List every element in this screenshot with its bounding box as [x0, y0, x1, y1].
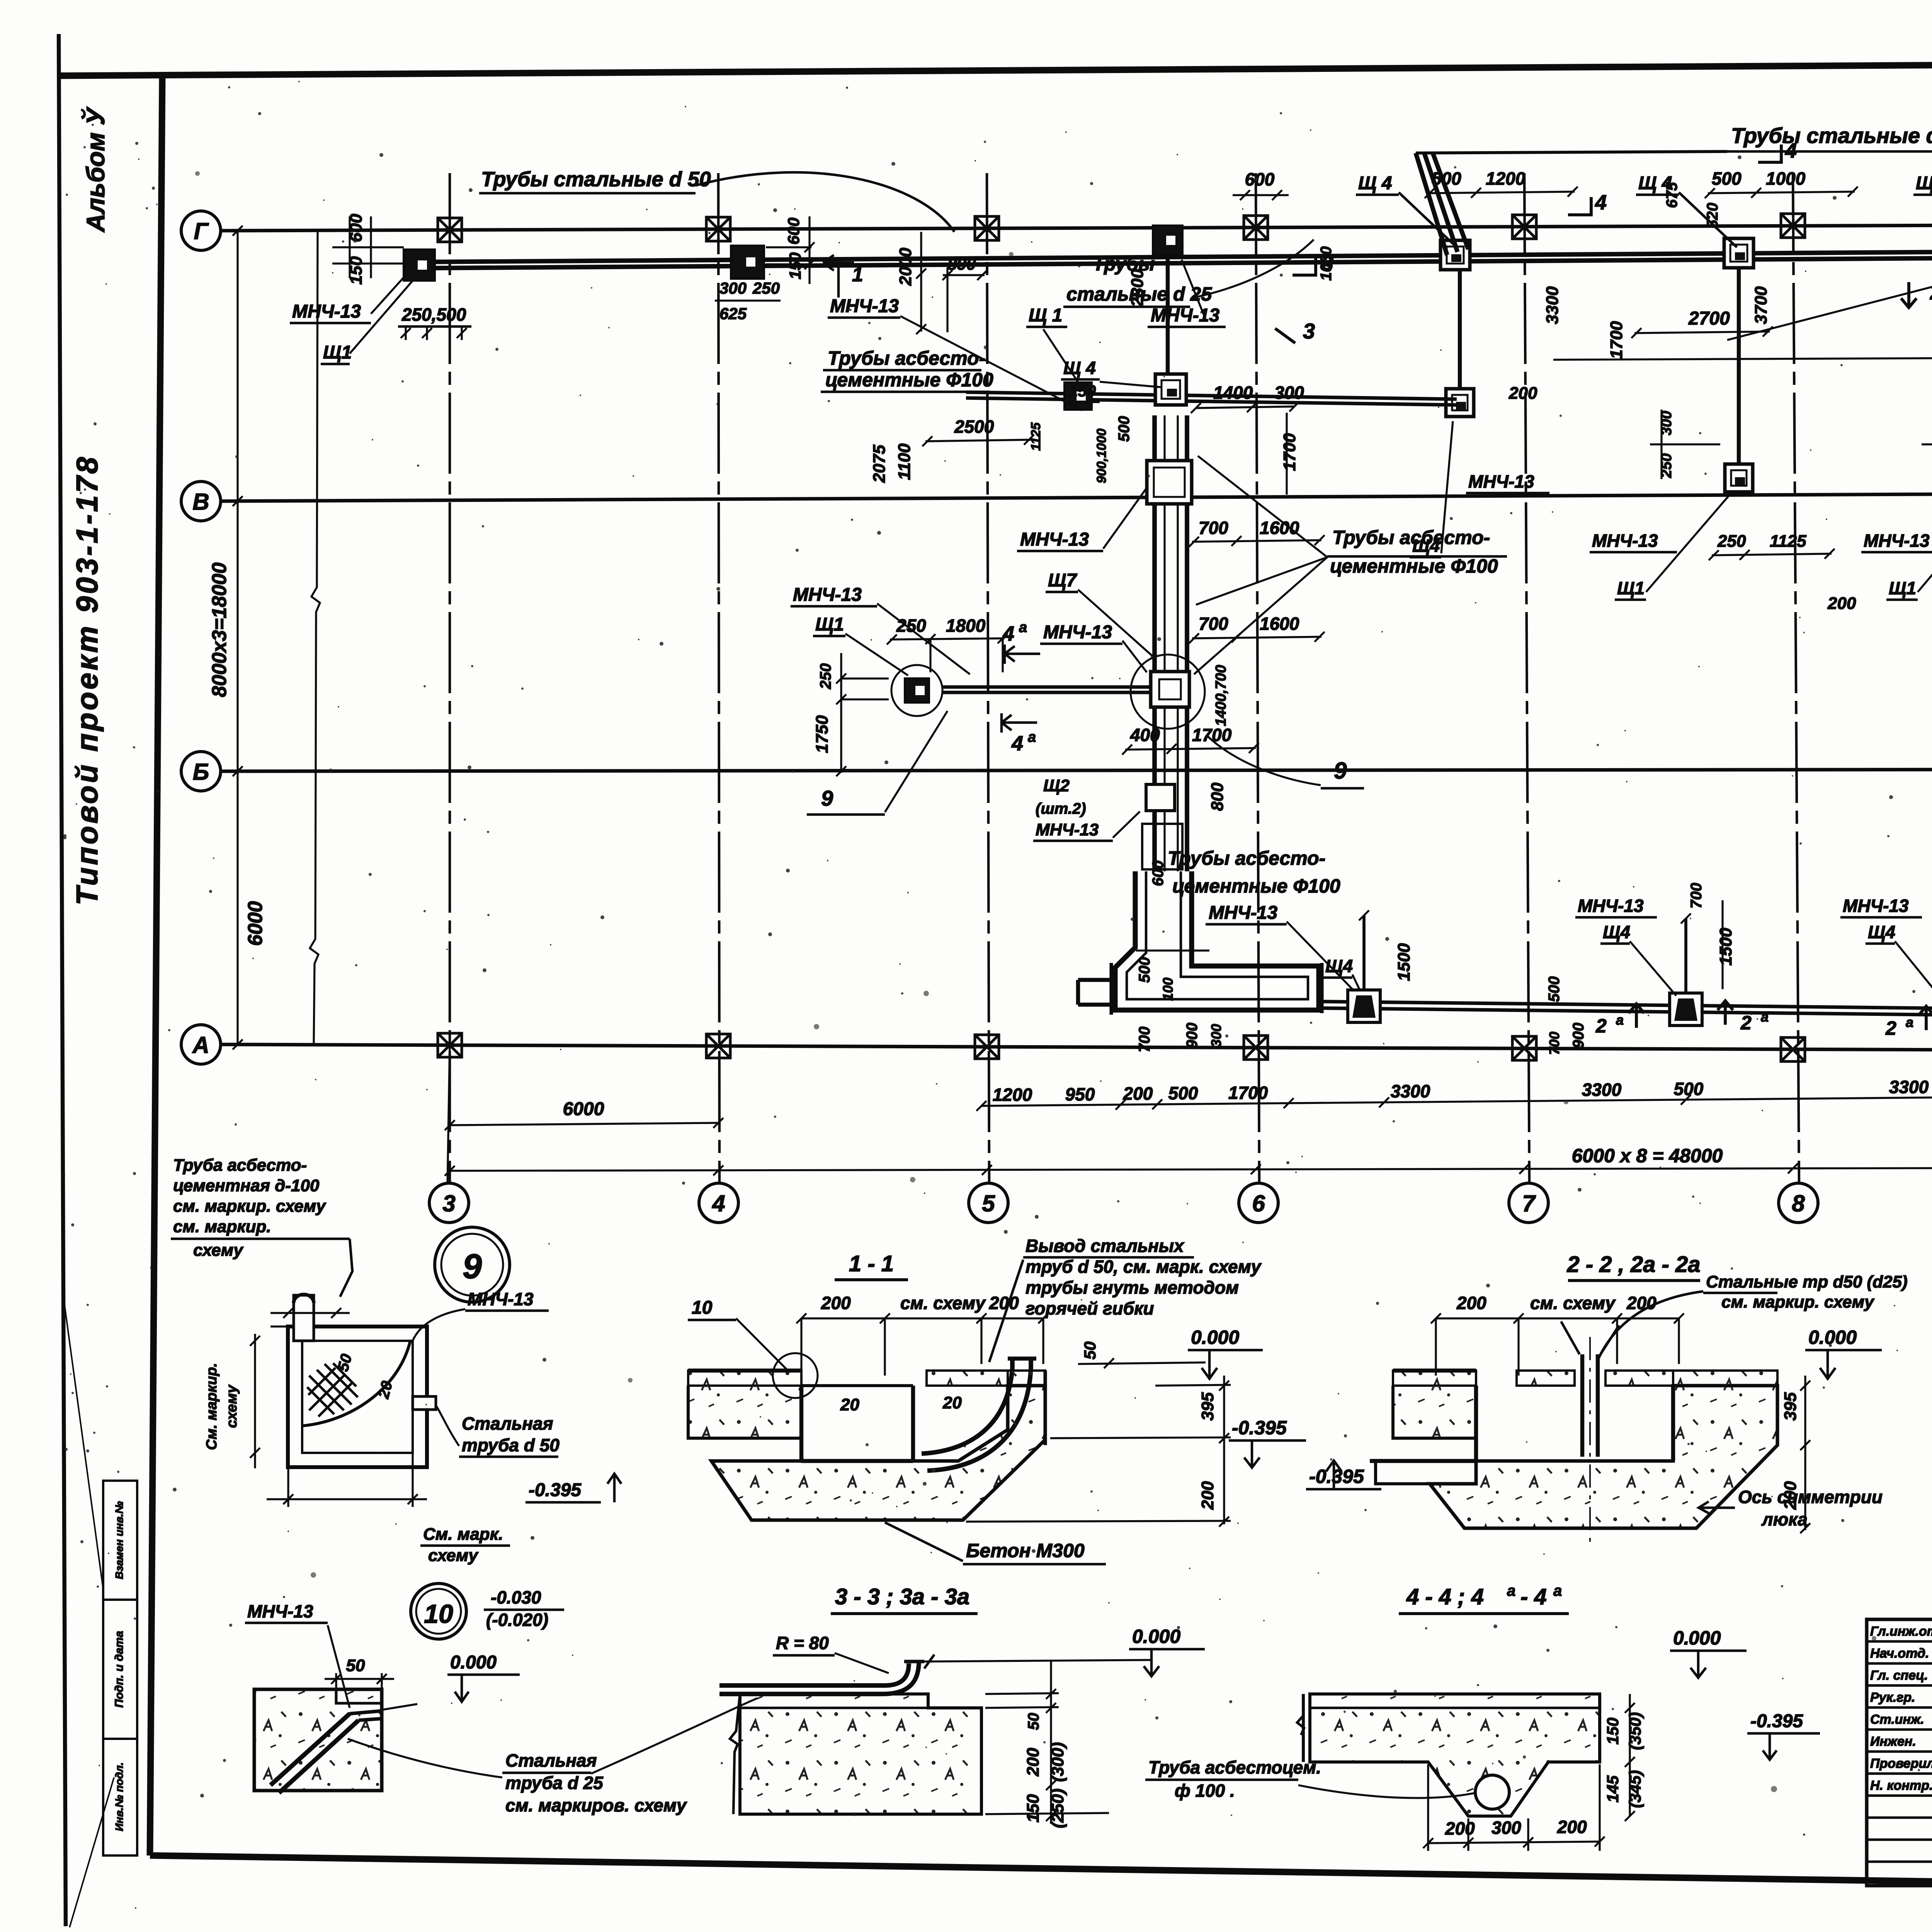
svg-text:Стальные тр d50 (d25): Стальные тр d50 (d25)	[1706, 1272, 1908, 1291]
svg-text:Инжен.: Инжен.	[1870, 1734, 1916, 1749]
svg-text:2: 2	[1595, 1015, 1607, 1037]
svg-text:800: 800	[1208, 782, 1227, 811]
manhole between col 6-7	[1440, 240, 1470, 270]
detail 9 manhole plan	[288, 1327, 427, 1467]
svg-text:9: 9	[821, 786, 833, 810]
svg-text:3 - 3 ; 3а - 3а: 3 - 3 ; 3а - 3а	[835, 1584, 969, 1609]
svg-text:МНЧ-13: МНЧ-13	[292, 301, 361, 322]
axis line &#1040;	[219, 1044, 1932, 1052]
svg-text:3300: 3300	[1889, 1077, 1929, 1097]
duct manhole box 1	[1147, 461, 1192, 504]
svg-text:1125: 1125	[1029, 422, 1043, 451]
axis circle &#1042;	[181, 481, 221, 521]
svg-text:Стальная: Стальная	[462, 1413, 553, 1434]
svg-text:МНЧ-13: МНЧ-13	[1020, 529, 1089, 550]
svg-text:труба d 25: труба d 25	[505, 1773, 604, 1793]
svg-text:250: 250	[896, 616, 926, 636]
svg-text:МНЧ-13: МНЧ-13	[1209, 903, 1277, 923]
svg-text:400: 400	[1130, 725, 1160, 745]
2-2 pit left wall	[1474, 1386, 1478, 1461]
hatch patch	[307, 1363, 358, 1414]
detail 10 circle	[411, 1583, 466, 1639]
left vertical dimension chain	[236, 231, 238, 1044]
axis line &#1042;	[219, 492, 1932, 501]
svg-text:1750: 1750	[813, 715, 832, 753]
svg-text:625: 625	[719, 304, 747, 323]
svg-text:схему: схему	[193, 1241, 244, 1260]
pipe run from west manhole to duct	[942, 685, 1150, 689]
svg-text:8: 8	[1792, 1190, 1805, 1216]
svg-text:а: а	[1019, 619, 1027, 636]
svg-text:200: 200	[1557, 1817, 1587, 1837]
svg-text:9: 9	[463, 1247, 482, 1286]
svg-text:горячей гибки: горячей гибки	[1026, 1298, 1154, 1318]
svg-text:Альбом Ў: Альбом Ў	[81, 106, 110, 233]
svg-text:8000х3=18000: 8000х3=18000	[208, 563, 231, 697]
svg-text:ф 100 .: ф 100 .	[1175, 1781, 1235, 1801]
svg-text:6000 х 8 = 48000: 6000 х 8 = 48000	[1572, 1145, 1723, 1167]
svg-text:-0.395: -0.395	[1750, 1711, 1803, 1731]
svg-text:МНЧ-13: МНЧ-13	[1151, 305, 1219, 326]
svg-text:2700: 2700	[1688, 308, 1730, 329]
column axis line 6	[1256, 173, 1259, 1185]
manhole Sch1/Sch4 on pipe right of col 4	[731, 246, 764, 279]
svg-text:2500: 2500	[954, 417, 994, 437]
svg-text:3300: 3300	[1543, 286, 1562, 324]
svg-text:1700: 1700	[1228, 1083, 1268, 1103]
svg-text:1400,700: 1400,700	[1213, 665, 1229, 726]
svg-text:а: а	[1028, 729, 1036, 745]
svg-text:МНЧ-13: МНЧ-13	[830, 296, 899, 316]
elbow west end cap	[1109, 963, 1113, 1015]
svg-text:500: 500	[1116, 416, 1133, 442]
svg-text:Трубы: Трубы	[1093, 253, 1155, 275]
pipe run between G and V (asbestos cement)	[966, 392, 1457, 399]
svg-text:Щ 4: Щ 4	[1063, 358, 1096, 378]
svg-text:цементные Ф100: цементные Ф100	[825, 369, 993, 391]
svg-text:700: 700	[1546, 1032, 1562, 1055]
2-2 center axis	[1589, 1337, 1591, 1542]
svg-text:стальные d 25: стальные d 25	[1066, 283, 1212, 305]
sheet outer left edge	[59, 34, 66, 1926]
svg-text:а: а	[1761, 1009, 1769, 1025]
column axis circle 8	[1779, 1183, 1818, 1223]
svg-text:250: 250	[752, 279, 780, 297]
stamp box: podp i data	[103, 1600, 137, 1739]
svg-text:250: 250	[1717, 532, 1746, 551]
svg-text:4: 4	[1002, 622, 1014, 645]
svg-text:Щ1: Щ1	[323, 342, 352, 363]
paper fold mark	[63, 1291, 104, 1592]
svg-text:цементные Ф100: цементные Ф100	[1330, 555, 1498, 577]
top pipe stub	[294, 1295, 314, 1341]
1-1 base concrete	[711, 1386, 1045, 1520]
3-3 slab	[740, 1694, 981, 1814]
svg-text:000: 000	[1689, 1627, 1721, 1649]
svg-text:Труба асбесто-: Труба асбесто-	[173, 1156, 307, 1175]
svg-text:Гл. спец.: Гл. спец.	[1870, 1668, 1928, 1683]
svg-text:700: 700	[1199, 518, 1228, 538]
circled manhole node 9 (west)	[891, 665, 942, 716]
svg-text:Б: Б	[193, 759, 209, 785]
detail 9 circle	[435, 1227, 510, 1302]
svg-text:300: 300	[1208, 1024, 1224, 1047]
svg-text:2: 2	[1740, 1012, 1752, 1034]
svg-text:0.000: 0.000	[450, 1652, 497, 1673]
svg-text:950: 950	[1065, 1084, 1095, 1104]
manhole col 8 on pipe	[1724, 238, 1753, 268]
svg-text:0.000: 0.000	[1808, 1327, 1857, 1348]
svg-text:6000: 6000	[563, 1099, 604, 1119]
pipe diagonal	[270, 1714, 350, 1785]
detail 9 dims	[270, 1312, 350, 1314]
2-2 floor slab left	[1393, 1371, 1476, 1386]
svg-text:МНЧ-13: МНЧ-13	[247, 1601, 313, 1621]
bottom frame border	[150, 1855, 1932, 1893]
svg-text:МНЧ-13: МНЧ-13	[1043, 622, 1112, 643]
svg-text:600: 600	[1245, 169, 1275, 189]
svg-text:см. маркир.: см. маркир.	[173, 1217, 271, 1236]
2-2 screed mid	[1517, 1371, 1575, 1386]
extension verticals to bottom dims	[447, 1044, 450, 1185]
svg-text:300: 300	[1930, 411, 1932, 435]
svg-text:4: 4	[1785, 139, 1797, 162]
svg-text:1200: 1200	[993, 1085, 1032, 1105]
svg-text:200: 200	[1827, 594, 1856, 613]
column axis circle 4	[699, 1183, 738, 1223]
svg-text:200: 200	[1123, 1083, 1153, 1104]
svg-text:200: 200	[1445, 1818, 1475, 1838]
svg-text:люка: люка	[1761, 1509, 1808, 1529]
column axis circle 5	[969, 1183, 1008, 1223]
manhole at duct head	[1155, 374, 1186, 405]
svg-text:-0.395: -0.395	[1232, 1417, 1287, 1439]
svg-text:- 4: - 4	[1520, 1584, 1547, 1609]
svg-text:700: 700	[1688, 883, 1705, 909]
leader to pipes: horizontal then fan	[1416, 151, 1727, 153]
svg-text:труб d 50, см. марк. схему: труб d 50, см. марк. схему	[1026, 1257, 1262, 1277]
svg-text:Гл.инж.отд: Гл.инж.отд	[1870, 1624, 1932, 1639]
svg-text:3: 3	[1321, 251, 1333, 275]
svg-text:4: 4	[1011, 732, 1023, 755]
svg-text:-0.395: -0.395	[1309, 1466, 1364, 1487]
svg-text:3: 3	[442, 1190, 455, 1216]
svg-text:см. схему: см. схему	[900, 1293, 986, 1313]
svg-text:1 - 1: 1 - 1	[849, 1251, 894, 1276]
svg-text:Щ1: Щ1	[1617, 578, 1645, 598]
manhole on run	[1065, 383, 1092, 410]
axis circle &#1041;	[181, 752, 221, 791]
svg-text:Щ4: Щ4	[1603, 922, 1630, 942]
1-1 floor slab left	[688, 1371, 801, 1386]
svg-text:500: 500	[1546, 976, 1563, 1002]
svg-text:3: 3	[1303, 319, 1315, 343]
svg-text:0.000: 0.000	[1132, 1626, 1180, 1647]
svg-text:-0.030: -0.030	[491, 1587, 541, 1607]
svg-text:Щ 4: Щ 4	[1916, 173, 1932, 194]
svg-text:100: 100	[1160, 978, 1176, 1001]
svg-text:МНЧ-13: МНЧ-13	[1864, 531, 1930, 551]
svg-text:250: 250	[817, 663, 834, 690]
quarter arc inside	[302, 1341, 410, 1426]
svg-text:9: 9	[1334, 758, 1347, 784]
svg-text:500: 500	[1168, 1083, 1198, 1103]
column axis line 5	[987, 173, 989, 1185]
duct manhole (circled, node 9)	[1131, 655, 1205, 729]
svg-text:900,1000: 900,1000	[1094, 429, 1109, 483]
svg-text:7: 7	[1522, 1190, 1536, 1216]
svg-text:Щ 1: Щ 1	[1029, 305, 1063, 326]
duct channel box	[1142, 824, 1182, 869]
svg-text:R = 80: R = 80	[776, 1633, 829, 1653]
axis circle &#1040;	[181, 1025, 221, 1064]
svg-text:Н. контр.: Н. контр.	[1870, 1778, 1932, 1793]
step cut at top right	[336, 1689, 382, 1703]
svg-text:трубы гнуть методом: трубы гнуть методом	[1026, 1277, 1239, 1298]
L-shaped duct elbow	[1115, 871, 1319, 1010]
lower run manhole at x=4363	[1670, 993, 1702, 1026]
svg-text:МНЧ-13: МНЧ-13	[1592, 531, 1658, 551]
svg-text:150: 150	[1069, 382, 1096, 400]
1-1 pipe elbow	[922, 1359, 1012, 1454]
svg-text:МНЧ-13: МНЧ-13	[793, 585, 862, 605]
svg-text:20: 20	[840, 1395, 859, 1414]
svg-text:МНЧ-13: МНЧ-13	[468, 1289, 534, 1309]
svg-text:2: 2	[1885, 1017, 1896, 1039]
svg-text:150: 150	[786, 252, 804, 279]
svg-text:Трубы асбесто-: Трубы асбесто-	[1332, 527, 1490, 548]
svg-text:цементные Ф100: цементные Ф100	[1172, 875, 1340, 897]
2-2 lower slab ledge	[1376, 1461, 1430, 1484]
svg-text:2075: 2075	[870, 445, 889, 483]
west stub pipe	[1078, 978, 1115, 982]
svg-text:Г: Г	[194, 218, 209, 244]
svg-text:Типовой проект 903-1-178: Типовой проект 903-1-178	[70, 455, 104, 905]
svg-text:3700: 3700	[1752, 286, 1770, 324]
svg-text:1125: 1125	[1770, 532, 1806, 551]
svg-text:схему: схему	[428, 1546, 479, 1565]
duct box Sch2	[1146, 784, 1175, 811]
svg-text:1700: 1700	[1280, 433, 1299, 471]
svg-text:1500: 1500	[1395, 943, 1413, 981]
svg-text:Вывод стальных: Вывод стальных	[1026, 1236, 1185, 1256]
svg-text:6: 6	[1252, 1190, 1265, 1216]
detail 10 concrete block	[254, 1689, 382, 1791]
svg-text:1700: 1700	[1192, 725, 1232, 745]
svg-text:2: 2	[1930, 281, 1932, 304]
svg-text:200: 200	[1781, 1481, 1800, 1510]
svg-text:200: 200	[821, 1293, 851, 1313]
svg-text:Щ1: Щ1	[815, 614, 844, 635]
svg-text:Ст.инж.: Ст.инж.	[1870, 1712, 1924, 1727]
svg-text:600: 600	[784, 218, 803, 245]
svg-text:Инв.№ подл.: Инв.№ подл.	[113, 1762, 125, 1831]
svg-text:-0.395: -0.395	[529, 1480, 582, 1500]
svg-text:Трубы асбесто-: Трубы асбесто-	[828, 347, 985, 369]
svg-text:520: 520	[1704, 203, 1721, 229]
joint detail circle	[773, 1353, 818, 1398]
svg-text:20: 20	[942, 1393, 962, 1412]
svg-text:3300: 3300	[1391, 1081, 1430, 1101]
3-3 pipe on slab	[719, 1663, 909, 1685]
right pipe stub	[413, 1396, 436, 1410]
svg-text:Щ4: Щ4	[1325, 956, 1353, 976]
svg-text:300: 300	[1274, 383, 1304, 403]
svg-text:см. маркиров. схему: см. маркиров. схему	[505, 1795, 687, 1815]
svg-text:3300: 3300	[1582, 1080, 1622, 1100]
svg-text:1100: 1100	[895, 443, 914, 480]
svg-text:675: 675	[1663, 182, 1680, 208]
svg-text:Трубы стальные d 50: Трубы стальные d 50	[481, 168, 711, 191]
svg-text:4: 4	[712, 1190, 725, 1216]
svg-text:250,500: 250,500	[401, 304, 466, 325]
svg-text:900: 900	[1570, 1023, 1587, 1049]
intersection squares line A	[438, 1033, 462, 1057]
svg-text:Подп. и дата: Подп. и дата	[113, 1631, 126, 1708]
svg-text:(-0.020): (-0.020)	[486, 1610, 548, 1630]
svg-text:6000: 6000	[244, 901, 267, 946]
detail 10 dims	[335, 1673, 337, 1689]
svg-text:200: 200	[1198, 1481, 1217, 1510]
column axis line 7	[1524, 173, 1529, 1185]
left break	[730, 1694, 740, 1814]
svg-text:Щ4: Щ4	[1412, 536, 1440, 556]
column axis line 4	[718, 173, 719, 1185]
svg-text:2 - 2 , 2а - 2а: 2 - 2 , 2а - 2а	[1567, 1252, 1701, 1277]
svg-text:МНЧ-13: МНЧ-13	[1578, 896, 1644, 916]
axis circle &#1043;	[181, 211, 221, 250]
svg-text:Щ4: Щ4	[1868, 922, 1895, 942]
svg-text:700: 700	[1136, 1027, 1153, 1053]
2-2 base concrete	[1430, 1386, 1777, 1528]
manhole MNCh-13 at col 3 (dark)	[404, 250, 435, 281]
svg-text:См. маркир.: См. маркир.	[204, 1363, 220, 1450]
stamp box: inv no podl	[103, 1739, 137, 1855]
svg-text:500: 500	[1136, 957, 1153, 983]
svg-text:Рук.гр.: Рук.гр.	[1870, 1690, 1915, 1705]
svg-text:схему: схему	[224, 1384, 240, 1428]
right slab band	[1008, 1371, 1045, 1386]
svg-text:1500: 1500	[1716, 928, 1735, 966]
svg-text:Щ2: Щ2	[1043, 776, 1070, 795]
svg-text:а: а	[1553, 1582, 1562, 1599]
svg-text:50: 50	[346, 1656, 365, 1675]
svg-text:Труба асбестоцем.: Труба асбестоцем.	[1148, 1757, 1321, 1777]
svg-text:Проверил: Проверил	[1870, 1756, 1932, 1771]
svg-text:цементная д-100: цементная д-100	[173, 1176, 320, 1195]
2-2 pipe vertical	[1580, 1354, 1584, 1457]
riser pipes from axis G manholes down to row V manholes	[1458, 270, 1462, 389]
svg-text:500: 500	[1674, 1079, 1704, 1099]
svg-text:1000: 1000	[1766, 168, 1806, 189]
stamp box: vzamen inv	[103, 1481, 137, 1600]
lower pipe run to east	[1322, 1002, 1932, 1015]
lower run manhole at x=3530	[1348, 990, 1380, 1022]
svg-text:Трубы асбесто-: Трубы асбесто-	[1168, 847, 1325, 869]
svg-text:150: 150	[1024, 1794, 1043, 1823]
svg-text:Щ1: Щ1	[1889, 578, 1916, 598]
svg-text:МНЧ-13: МНЧ-13	[1468, 471, 1534, 492]
row V manholes	[1446, 389, 1474, 417]
svg-text:(350): (350)	[1626, 1712, 1644, 1750]
svg-text:5: 5	[982, 1190, 995, 1216]
svg-text:500: 500	[1712, 168, 1742, 189]
svg-text:300: 300	[1492, 1818, 1521, 1838]
svg-text:50: 50	[1081, 1342, 1099, 1360]
svg-text:(345): (345)	[1626, 1770, 1644, 1808]
svg-text:0.000: 0.000	[1191, 1327, 1239, 1348]
svg-text:Взамен инв.№: Взамен инв.№	[113, 1501, 125, 1579]
column axis circle 6	[1239, 1183, 1278, 1223]
svg-text:395: 395	[1198, 1392, 1217, 1421]
4-4 slab with notch	[1310, 1694, 1600, 1816]
svg-text:В: В	[192, 489, 209, 515]
svg-text:(шт.2): (шт.2)	[1036, 800, 1086, 817]
svg-text:1400: 1400	[1213, 383, 1253, 403]
intersection squares line G	[438, 218, 462, 242]
column axis circle 7	[1509, 1183, 1548, 1223]
svg-text:а: а	[1616, 1012, 1624, 1028]
svg-text:МНЧ-13: МНЧ-13	[1036, 820, 1099, 839]
axis line &#1043;	[219, 223, 1932, 231]
svg-text:500: 500	[1432, 168, 1461, 189]
svg-text:0.: 0.	[1673, 1627, 1689, 1649]
column axis line 3	[449, 173, 451, 1185]
svg-text:200: 200	[1456, 1293, 1486, 1313]
lower dim chain	[981, 1092, 1932, 1106]
1-1 trench	[799, 1386, 803, 1461]
svg-text:4 - 4 ; 4: 4 - 4 ; 4	[1406, 1584, 1484, 1609]
svg-text:См. марк.: См. марк.	[423, 1525, 503, 1544]
bottom dimension 6000 (bay 3-4)	[450, 1123, 718, 1125]
svg-text:50: 50	[1025, 1713, 1042, 1730]
svg-text:300: 300	[719, 279, 747, 297]
inner frame left border	[150, 76, 162, 1855]
svg-text:труба d 50: труба d 50	[462, 1435, 560, 1455]
svg-text:1: 1	[852, 264, 863, 286]
svg-text:395: 395	[1781, 1392, 1800, 1421]
svg-text:а: а	[1906, 1014, 1913, 1030]
bottom overall dimension line 6000x8=48000	[450, 1167, 1932, 1171]
svg-text:200: 200	[1024, 1748, 1043, 1777]
svg-text:150: 150	[1604, 1718, 1622, 1745]
wall break line	[310, 231, 320, 1044]
svg-text:Нач.отд.: Нач.отд.	[1870, 1646, 1929, 1661]
svg-text:4: 4	[1595, 191, 1607, 214]
svg-text:см. маркир. схему: см. маркир. схему	[1721, 1293, 1875, 1311]
svg-text:1200: 1200	[1486, 168, 1526, 189]
svg-text:Стальная: Стальная	[505, 1750, 597, 1770]
svg-text:2000: 2000	[896, 248, 915, 286]
svg-text:Трубы стальные d 25: Трубы стальные d 25	[1731, 123, 1932, 148]
4-4 bottom dims	[1428, 1842, 1600, 1843]
svg-text:см. маркир. схему: см. маркир. схему	[173, 1197, 327, 1216]
manhole at col 6 on pipe	[1153, 226, 1182, 255]
svg-text:Щ 4: Щ 4	[1358, 173, 1392, 194]
svg-text:900: 900	[1184, 1023, 1201, 1049]
top frame border	[58, 61, 1932, 76]
svg-text:10: 10	[692, 1298, 713, 1318]
svg-text:1800: 1800	[946, 616, 986, 636]
svg-text:250: 250	[1930, 453, 1932, 478]
svg-text:Ось симметрии: Ось симметрии	[1738, 1487, 1883, 1507]
svg-text:145: 145	[1604, 1775, 1622, 1803]
svg-text:см. схему: см. схему	[1530, 1293, 1616, 1313]
svg-text:600: 600	[1150, 861, 1167, 886]
central asbestos duct vertical	[1152, 415, 1157, 871]
svg-text:700: 700	[1199, 614, 1228, 634]
signature table	[1867, 1619, 1932, 1886]
